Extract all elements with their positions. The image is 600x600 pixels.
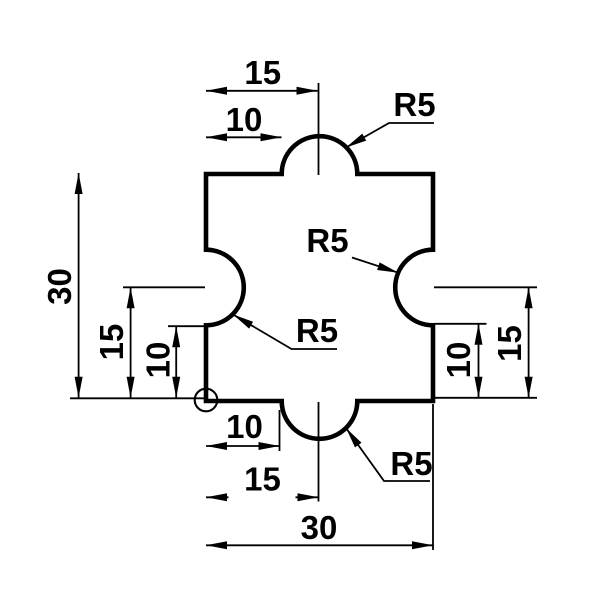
svg-text:10: 10	[140, 342, 177, 379]
svg-text:30: 30	[301, 509, 338, 546]
svg-text:R5: R5	[306, 222, 348, 259]
svg-text:R5: R5	[296, 312, 338, 349]
svg-text:R5: R5	[393, 86, 435, 123]
svg-text:15: 15	[244, 54, 281, 91]
svg-text:15: 15	[491, 325, 528, 362]
svg-text:R5: R5	[390, 445, 432, 482]
svg-text:30: 30	[41, 268, 78, 305]
svg-text:10: 10	[226, 101, 263, 138]
svg-text:15: 15	[244, 461, 281, 498]
svg-text:10: 10	[226, 408, 263, 445]
svg-text:15: 15	[93, 324, 130, 361]
svg-text:10: 10	[440, 342, 477, 379]
